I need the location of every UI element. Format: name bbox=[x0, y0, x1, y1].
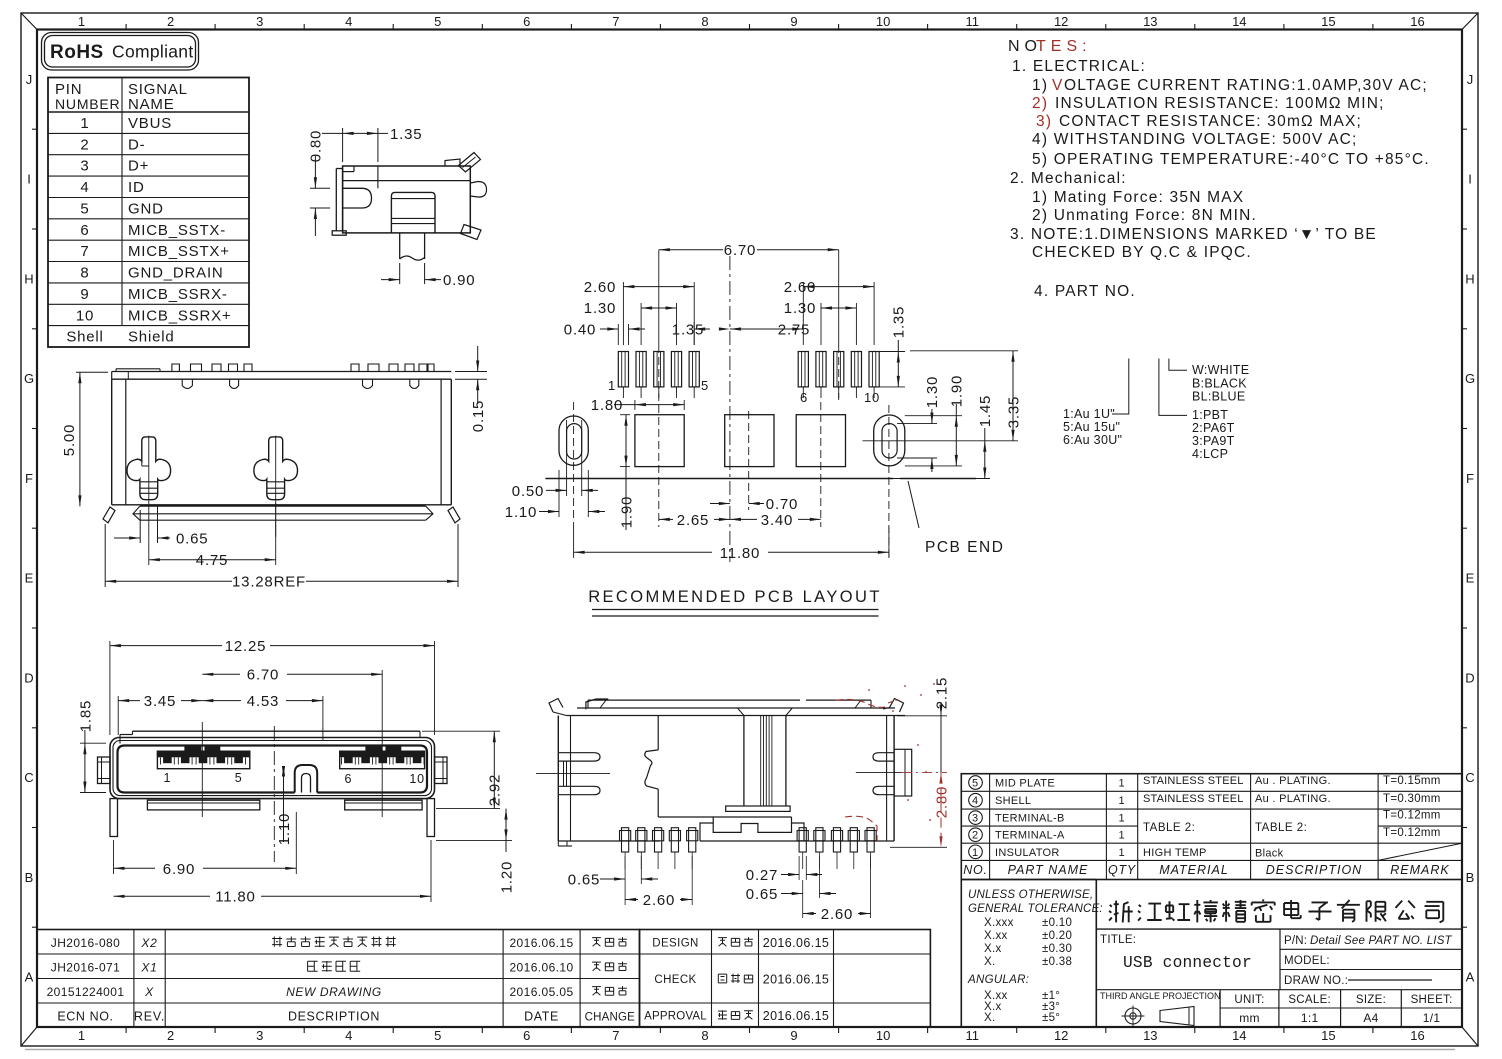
mating view left leg bbox=[110, 799, 118, 837]
front view body sides bbox=[111, 379, 113, 505]
front view body bottom line bbox=[112, 504, 452, 506]
mating view pin block left bbox=[157, 751, 249, 769]
pcb layout square pad 3 bbox=[796, 415, 845, 467]
dim 0.65 (front view) bbox=[139, 510, 141, 543]
svg-text:RECOMMENDED PCB LAYOUT: RECOMMENDED PCB LAYOUT bbox=[588, 588, 882, 606]
svg-text:13: 13 bbox=[1143, 14, 1157, 29]
RoHS Compliant badge outer outline bbox=[42, 33, 199, 71]
pcb layout left slot pad outer bbox=[559, 416, 588, 465]
pcb layout square pad 1 bbox=[635, 415, 684, 467]
svg-text:4: 4 bbox=[80, 179, 89, 196]
side view A solder pin with break line bbox=[399, 233, 401, 259]
svg-text:C: C bbox=[24, 770, 33, 785]
bottom view right centerline bbox=[856, 772, 902, 774]
svg-text:11.80: 11.80 bbox=[215, 889, 255, 906]
svg-text:TABLE 2:: TABLE 2: bbox=[1143, 822, 1195, 834]
svg-text:1.35: 1.35 bbox=[891, 306, 908, 338]
svg-text:C: C bbox=[1465, 770, 1474, 785]
svg-text:NO.: NO. bbox=[963, 863, 988, 877]
svg-text:TES:: TES: bbox=[1036, 38, 1092, 55]
dim 0.70 (pcb layout) bbox=[710, 503, 730, 505]
side view A body outline bbox=[343, 166, 471, 233]
bottom view bottom edge bbox=[558, 840, 660, 842]
svg-text:11: 11 bbox=[965, 14, 979, 29]
svg-text:14: 14 bbox=[1232, 1028, 1246, 1043]
dim 3.40 (pcb layout) bbox=[730, 518, 757, 520]
dim 1.20 (mating view) bbox=[436, 839, 512, 841]
bottom view legs left bbox=[622, 828, 629, 852]
svg-text:5:Au 15u": 5:Au 15u" bbox=[1063, 420, 1120, 434]
svg-text:6.70: 6.70 bbox=[724, 242, 756, 259]
mating view shell inner line bbox=[113, 741, 432, 796]
projection symbol cone bbox=[1160, 1007, 1194, 1026]
svg-text:DRAW NO.:: DRAW NO.: bbox=[1284, 975, 1348, 987]
bottom view center block bbox=[713, 816, 791, 818]
svg-text:X.: X. bbox=[984, 1012, 995, 1024]
svg-text:9: 9 bbox=[80, 286, 89, 303]
svg-text:MATERIAL: MATERIAL bbox=[1159, 863, 1229, 877]
svg-text:±0.30: ±0.30 bbox=[1042, 943, 1072, 955]
pcb layout square3 centerline bbox=[820, 402, 822, 527]
svg-text:3: 3 bbox=[256, 14, 263, 29]
mating view pin block right bbox=[340, 751, 425, 769]
side view A center tab bbox=[391, 192, 435, 233]
svg-text:3. NOTE:1.DIMENSIONS MARKED ‘▼: 3. NOTE:1.DIMENSIONS MARKED ‘▼’ TO BE bbox=[1010, 226, 1377, 243]
svg-text:10: 10 bbox=[876, 1028, 890, 1043]
bottom view center ribbon bbox=[743, 716, 745, 807]
svg-text:X.: X. bbox=[984, 956, 995, 968]
mating view right outer tab bbox=[435, 757, 448, 784]
svg-text:0.65: 0.65 bbox=[176, 531, 208, 548]
page bottom shadow line bbox=[25, 1049, 1455, 1051]
svg-text:Shell: Shell bbox=[66, 329, 103, 346]
svg-text:1: 1 bbox=[608, 378, 616, 393]
svg-text:USB connector: USB connector bbox=[1123, 954, 1252, 972]
parts table circled numbers bbox=[969, 776, 983, 790]
svg-text:15: 15 bbox=[1321, 14, 1335, 29]
svg-text:1.20: 1.20 bbox=[498, 861, 515, 893]
svg-text:OLTAGE CURRENT RATING:1.0AMP,3: OLTAGE CURRENT RATING:1.0AMP,30V AC; bbox=[1064, 77, 1428, 94]
pcb layout pad row 1-5 bbox=[618, 352, 628, 387]
svg-text:4) WITHSTANDING VOLTAGE: 500V: 4) WITHSTANDING VOLTAGE: 500V AC; bbox=[1032, 131, 1358, 148]
svg-text:3: 3 bbox=[256, 1028, 263, 1043]
bottom view divider line with notch bbox=[657, 716, 659, 750]
dim 12.25 (mating view) bbox=[109, 641, 111, 735]
svg-text:MICB_SSRX-: MICB_SSRX- bbox=[128, 286, 228, 303]
svg-text:1: 1 bbox=[1119, 847, 1126, 859]
svg-text:SCALE:: SCALE: bbox=[1288, 994, 1331, 1006]
mating view bottom strip left bbox=[147, 800, 259, 810]
svg-text:Detail See PART NO. LIST: Detail See PART NO. LIST bbox=[1310, 935, 1453, 947]
svg-text:1.85: 1.85 bbox=[77, 700, 94, 732]
dim 0.40 (pcb layout) bbox=[617, 324, 619, 345]
dim 1.30 oval (pcb layout) bbox=[897, 423, 937, 425]
svg-text:1.35: 1.35 bbox=[390, 126, 422, 143]
svg-text:J: J bbox=[26, 72, 33, 87]
svg-text:Au . PLATING.: Au . PLATING. bbox=[1255, 775, 1331, 787]
svg-text:6.90: 6.90 bbox=[163, 861, 195, 878]
dim 1.10 (pcb layout) bbox=[558, 470, 560, 517]
front view bottom flange bbox=[140, 505, 426, 507]
svg-text:2016.06.15: 2016.06.15 bbox=[763, 973, 830, 987]
svg-text:±0.38: ±0.38 bbox=[1042, 956, 1072, 968]
svg-text:P/N:: P/N: bbox=[1284, 935, 1307, 947]
svg-text:2.60: 2.60 bbox=[784, 279, 816, 296]
svg-text:10: 10 bbox=[76, 307, 94, 324]
svg-text:10: 10 bbox=[876, 14, 890, 29]
dim 0.80 vertical (view A) bbox=[310, 187, 330, 189]
side view A bottom right angled hook bbox=[461, 225, 482, 240]
bottom view top band bbox=[588, 699, 800, 701]
bottom view red revision dashes right bottom bbox=[845, 816, 877, 841]
dim 13.28REF (front view) bbox=[104, 524, 106, 587]
dim 4.75 (front view) bbox=[149, 559, 276, 561]
svg-text:3: 3 bbox=[972, 813, 979, 825]
side view A contact slot bbox=[343, 188, 372, 208]
svg-text:X.x: X.x bbox=[984, 943, 1002, 955]
front view top slots right group bbox=[363, 379, 373, 388]
svg-text:1:1: 1:1 bbox=[1301, 1011, 1319, 1025]
svg-text:2016.06.10: 2016.06.10 bbox=[509, 961, 573, 975]
svg-text:2: 2 bbox=[80, 136, 89, 153]
svg-text:GND_DRAIN: GND_DRAIN bbox=[128, 265, 224, 282]
svg-text:0.70: 0.70 bbox=[766, 496, 798, 513]
dim 3.45 (mating view) bbox=[117, 696, 119, 735]
border row ticks right bbox=[1462, 128, 1467, 130]
svg-text:2.60: 2.60 bbox=[643, 892, 675, 909]
bottom view top left hook bbox=[549, 699, 563, 713]
svg-text:MID PLATE: MID PLATE bbox=[995, 778, 1055, 790]
svg-text:5: 5 bbox=[701, 378, 709, 393]
bottom view left tab centerline bbox=[536, 773, 610, 775]
svg-text:12.25: 12.25 bbox=[225, 638, 267, 655]
svg-text:9: 9 bbox=[790, 14, 797, 29]
svg-text:INSULATOR: INSULATOR bbox=[995, 847, 1060, 859]
pcb layout square2 centerline bbox=[748, 411, 750, 510]
svg-text:QTY: QTY bbox=[1108, 863, 1137, 877]
svg-text:2016.06.15: 2016.06.15 bbox=[763, 1009, 830, 1023]
svg-text:X.xx: X.xx bbox=[984, 930, 1008, 942]
svg-text:0.65: 0.65 bbox=[568, 872, 600, 889]
svg-text:J: J bbox=[1467, 72, 1474, 87]
company name chinese text bbox=[1109, 901, 1133, 923]
svg-text:15: 15 bbox=[1321, 1028, 1335, 1043]
dim 2.80 red (bottom view) bbox=[940, 773, 942, 848]
front view top tabs left group bbox=[172, 364, 180, 372]
svg-text:2: 2 bbox=[167, 14, 174, 29]
svg-text:VBUS: VBUS bbox=[128, 115, 172, 132]
dim 1.35 horizontal (view A) bbox=[342, 128, 344, 162]
svg-text:±0.10: ±0.10 bbox=[1042, 917, 1072, 929]
bottom view red revision dashes top right bbox=[836, 699, 885, 707]
svg-text:1: 1 bbox=[1119, 830, 1126, 842]
svg-text:0.65: 0.65 bbox=[746, 886, 778, 903]
svg-text:APPROVAL: APPROVAL bbox=[644, 1011, 707, 1023]
svg-text:B: B bbox=[1466, 870, 1475, 885]
svg-text:1: 1 bbox=[1119, 795, 1126, 807]
legend bracket for color and material bbox=[1159, 359, 1187, 416]
svg-text:NUMBER: NUMBER bbox=[55, 96, 120, 112]
svg-text:11: 11 bbox=[965, 1028, 979, 1043]
pn model draw rows bbox=[1280, 948, 1462, 950]
svg-text:2016.06.15: 2016.06.15 bbox=[509, 936, 573, 950]
dim 0.27 (bottom view) bbox=[798, 856, 800, 880]
svg-text:3: 3 bbox=[80, 158, 89, 175]
svg-text:1: 1 bbox=[78, 14, 85, 29]
svg-text:NAME: NAME bbox=[128, 96, 175, 113]
svg-text:7: 7 bbox=[612, 14, 619, 29]
bottom view red speckles bbox=[868, 689, 870, 691]
svg-text:B:BLACK: B:BLACK bbox=[1192, 377, 1247, 391]
svg-text:T=0.15mm: T=0.15mm bbox=[1383, 775, 1441, 787]
svg-text:±0.20: ±0.20 bbox=[1042, 930, 1072, 942]
svg-text:H: H bbox=[1465, 271, 1474, 286]
dim 1.80 (pcb layout) bbox=[634, 400, 636, 410]
projection symbol circle bbox=[1125, 1008, 1141, 1024]
svg-text:T=0.12mm: T=0.12mm bbox=[1383, 810, 1441, 822]
svg-text:13: 13 bbox=[1143, 1028, 1157, 1043]
svg-text:5) OPERATING TEMPERATURE:-40°C: 5) OPERATING TEMPERATURE:-40°C TO +85°C. bbox=[1032, 151, 1430, 168]
svg-text:0.40: 0.40 bbox=[564, 322, 596, 339]
pin signal table grid bbox=[48, 78, 249, 348]
svg-text:2.80: 2.80 bbox=[933, 786, 950, 818]
svg-text:0.15: 0.15 bbox=[470, 400, 487, 432]
svg-text:2.15: 2.15 bbox=[933, 677, 950, 709]
svg-text:RoHS: RoHS bbox=[50, 42, 104, 63]
dim 2.65 (pcb layout) bbox=[659, 518, 673, 520]
svg-text:1/1: 1/1 bbox=[1423, 1011, 1441, 1025]
svg-text:±5°: ±5° bbox=[1042, 1012, 1060, 1024]
svg-text:2.92: 2.92 bbox=[487, 774, 504, 806]
svg-text:6: 6 bbox=[345, 772, 353, 786]
pcb layout square pad 2 bbox=[725, 415, 774, 467]
border column ticks bottom bbox=[125, 1027, 127, 1033]
bottom view top right hook bbox=[890, 699, 904, 713]
svg-text:16: 16 bbox=[1410, 1028, 1424, 1043]
svg-text:TABLE 2:: TABLE 2: bbox=[1255, 822, 1307, 834]
dim 2.60 right (pcb layout) bbox=[802, 282, 804, 322]
svg-text:10: 10 bbox=[409, 772, 425, 786]
svg-text:2. Mechanical:: 2. Mechanical: bbox=[1010, 170, 1127, 187]
svg-text:REV.: REV. bbox=[134, 1010, 165, 1024]
side view A middle right curl bbox=[470, 182, 486, 198]
svg-text:ID: ID bbox=[128, 179, 145, 196]
revision table grid bbox=[37, 930, 640, 1028]
dim 6.70 (pcb layout) bbox=[659, 249, 723, 251]
pcb layout right slot pad inner bbox=[882, 424, 897, 458]
svg-text:10: 10 bbox=[864, 390, 880, 405]
svg-text:2016.06.15: 2016.06.15 bbox=[763, 936, 830, 950]
svg-text:6:Au 30U": 6:Au 30U" bbox=[1063, 433, 1122, 447]
svg-text:SHEET:: SHEET: bbox=[1411, 994, 1453, 1006]
mating view center notch bbox=[295, 765, 318, 793]
svg-text:A: A bbox=[25, 970, 34, 985]
svg-text:PCB END: PCB END bbox=[925, 539, 1004, 556]
svg-text:5.00: 5.00 bbox=[61, 424, 78, 456]
svg-text:Black: Black bbox=[1255, 848, 1284, 860]
svg-text:2: 2 bbox=[972, 830, 979, 842]
svg-text:TITLE:: TITLE: bbox=[1100, 934, 1136, 946]
bottom view ribbon base bbox=[726, 806, 790, 811]
svg-text:UNLESS OTHERWISE,: UNLESS OTHERWISE, bbox=[968, 889, 1093, 901]
svg-text:0.27: 0.27 bbox=[746, 867, 778, 884]
svg-text:2.75: 2.75 bbox=[778, 322, 810, 339]
svg-text:5: 5 bbox=[235, 771, 243, 785]
front view board lock posts bbox=[127, 437, 171, 500]
dim 1.90 oval (pcb layout) bbox=[905, 415, 962, 417]
svg-text:6.70: 6.70 bbox=[247, 667, 279, 684]
svg-text:GENERAL TOLERANCE:: GENERAL TOLERANCE: bbox=[968, 903, 1103, 915]
svg-text:D: D bbox=[1465, 670, 1474, 685]
svg-text:D-: D- bbox=[128, 136, 145, 153]
mating view bottom strip right bbox=[345, 800, 422, 810]
svg-text:1. ELECTRICAL:: 1. ELECTRICAL: bbox=[1012, 58, 1146, 75]
svg-text:JH2016-080: JH2016-080 bbox=[51, 936, 120, 950]
svg-text:12: 12 bbox=[1054, 14, 1068, 29]
svg-text:6: 6 bbox=[800, 390, 808, 405]
svg-text:20151224001: 20151224001 bbox=[47, 985, 125, 999]
svg-text:X: X bbox=[144, 985, 154, 999]
svg-text:MICB_SSTX-: MICB_SSTX- bbox=[128, 222, 226, 239]
projection row borders bbox=[1219, 990, 1221, 1027]
svg-text:NEW DRAWING: NEW DRAWING bbox=[286, 985, 382, 999]
bottom view top left hook2 bbox=[586, 699, 608, 709]
bottom view center block notch profile bbox=[713, 823, 791, 832]
pcb layout left slot centerlines bbox=[573, 402, 575, 527]
svg-text:X1: X1 bbox=[140, 961, 157, 975]
approval table grid bbox=[640, 930, 931, 1028]
svg-text:12: 12 bbox=[1054, 1028, 1068, 1043]
svg-text:1: 1 bbox=[1119, 778, 1126, 790]
dim 0.65 left (bottom view) bbox=[624, 856, 626, 884]
svg-text:GND: GND bbox=[128, 201, 164, 218]
mating view right leg bbox=[427, 799, 435, 837]
svg-text:4. PART NO.: 4. PART NO. bbox=[1034, 283, 1136, 300]
dim 2.75 (pcb layout) bbox=[802, 322, 804, 345]
dim 5.00 vertical (front view) bbox=[76, 371, 108, 373]
svg-text:UNIT:: UNIT: bbox=[1234, 994, 1264, 1006]
svg-text:5: 5 bbox=[434, 14, 441, 29]
svg-text:H: H bbox=[24, 271, 33, 286]
svg-text:G: G bbox=[1465, 371, 1475, 386]
dim 6.70 (mating view) bbox=[381, 670, 383, 722]
svg-text:5: 5 bbox=[972, 778, 979, 790]
mating view centerline bbox=[273, 726, 275, 862]
svg-text:1: 1 bbox=[78, 1028, 85, 1043]
svg-text:F: F bbox=[1466, 471, 1474, 486]
front view post inner step bbox=[142, 465, 149, 467]
dim 4.53 (mating view) bbox=[322, 696, 324, 740]
svg-text:ECN NO.: ECN NO. bbox=[57, 1010, 113, 1024]
svg-text:A: A bbox=[1466, 970, 1475, 985]
svg-text:2.65: 2.65 bbox=[677, 512, 709, 529]
svg-text:1:PBT: 1:PBT bbox=[1192, 408, 1228, 422]
svg-text:V: V bbox=[1052, 77, 1064, 94]
mating view shell top band bbox=[133, 730, 421, 732]
svg-text:B: B bbox=[25, 870, 34, 885]
svg-text:ANGULAR:: ANGULAR: bbox=[967, 974, 1029, 986]
svg-text:T=0.12mm: T=0.12mm bbox=[1383, 827, 1441, 839]
dim 1.30 left (pcb layout) bbox=[640, 303, 642, 345]
svg-text:CHECKED BY Q.C & IPQC.: CHECKED BY Q.C & IPQC. bbox=[1032, 244, 1252, 261]
svg-text:I: I bbox=[1468, 172, 1472, 187]
svg-text:MODEL:: MODEL: bbox=[1284, 955, 1330, 967]
dim 11.80 (mating view) bbox=[430, 840, 432, 902]
parts table grid bbox=[961, 774, 1462, 880]
svg-text:1.45: 1.45 bbox=[977, 395, 994, 427]
pcb board edge line bbox=[545, 478, 893, 480]
title cell border bbox=[1279, 929, 1281, 990]
svg-text:6: 6 bbox=[80, 222, 89, 239]
svg-text:1) Mating Force: 35N MAX: 1) Mating Force: 35N MAX bbox=[1032, 189, 1244, 206]
svg-text:4: 4 bbox=[345, 1028, 352, 1043]
svg-text:1.30: 1.30 bbox=[584, 300, 616, 317]
svg-text:2:PA6T: 2:PA6T bbox=[1192, 421, 1235, 435]
svg-text:INSULATION RESISTANCE: 100MΩ M: INSULATION RESISTANCE: 100MΩ MIN; bbox=[1055, 95, 1385, 112]
pcb layout right slot centerlines bbox=[888, 405, 890, 560]
svg-text:2016.05.05: 2016.05.05 bbox=[509, 985, 573, 999]
svg-text:3): 3) bbox=[1036, 113, 1052, 130]
dim 1.10 (mating view) bbox=[283, 768, 285, 842]
svg-text:1: 1 bbox=[1119, 813, 1126, 825]
svg-text:MICB_SSRX+: MICB_SSRX+ bbox=[128, 307, 231, 324]
svg-text:1.90: 1.90 bbox=[949, 375, 966, 407]
svg-text:1): 1) bbox=[1032, 77, 1048, 94]
pcb end leader and label bbox=[908, 481, 919, 528]
tolerance block border bbox=[960, 880, 962, 1028]
svg-text:4.53: 4.53 bbox=[247, 693, 279, 710]
svg-text:E: E bbox=[25, 571, 34, 586]
svg-text:1.80: 1.80 bbox=[591, 397, 623, 414]
side view A top right angled hook bbox=[459, 153, 481, 173]
bottom view legs right bbox=[799, 828, 806, 852]
front view left foot bbox=[103, 507, 115, 523]
svg-text:4.75: 4.75 bbox=[196, 552, 228, 569]
svg-text:SIZE:: SIZE: bbox=[1356, 994, 1386, 1006]
bottom view left side tab bbox=[559, 753, 600, 761]
svg-text:14: 14 bbox=[1232, 14, 1246, 29]
svg-text:D+: D+ bbox=[128, 158, 149, 175]
pcb layout group2 center extension bbox=[838, 250, 840, 345]
svg-text:PART NAME: PART NAME bbox=[1008, 863, 1089, 877]
svg-text:DESCRIPTION: DESCRIPTION bbox=[1266, 863, 1362, 877]
svg-text:SHELL: SHELL bbox=[995, 795, 1031, 807]
svg-text:2): 2) bbox=[1032, 95, 1048, 112]
svg-text:6: 6 bbox=[523, 1028, 530, 1043]
pcb layout pad center stubs bbox=[622, 387, 624, 398]
svg-text:1: 1 bbox=[972, 847, 979, 859]
dim 1.35 middle (pcb layout) bbox=[693, 322, 695, 345]
dim 0.90 horizontal (view A) bbox=[399, 263, 401, 284]
svg-text:STAINLESS STEEL: STAINLESS STEEL bbox=[1143, 775, 1244, 787]
svg-text:1.10: 1.10 bbox=[276, 813, 293, 845]
side view A top-left step bbox=[343, 171, 354, 173]
dim 1.35 vertical right (pcb layout) bbox=[879, 351, 905, 353]
side view A top hook tab bbox=[445, 159, 460, 166]
svg-text:CONTACT RESISTANCE: 30mΩ MAX;: CONTACT RESISTANCE: 30mΩ MAX; bbox=[1059, 113, 1362, 130]
svg-text:THIRD ANGLE PROJECTION: THIRD ANGLE PROJECTION bbox=[1100, 991, 1221, 1001]
svg-text:DATE: DATE bbox=[524, 1010, 559, 1024]
pcb layout group1 centerline bbox=[658, 250, 660, 345]
svg-text:STAINLESS STEEL: STAINLESS STEEL bbox=[1143, 793, 1244, 805]
front view top tabs right group bbox=[351, 364, 359, 372]
dim 2.92 (mating view) bbox=[422, 730, 500, 732]
legend bracket for plating bbox=[1112, 359, 1129, 415]
front view right foot bbox=[448, 507, 460, 523]
mating view left outer tab bbox=[98, 757, 111, 784]
dim 2.60 left (bottom view) bbox=[624, 884, 626, 905]
svg-text:9: 9 bbox=[790, 1028, 797, 1043]
